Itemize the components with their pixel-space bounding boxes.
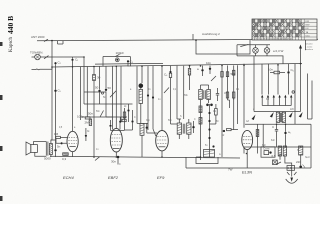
switch contact on antenna line — [44, 39, 48, 41]
resistor R5 — [89, 119, 91, 126]
svg-text:10n: 10n — [206, 61, 211, 65]
svg-text:EL3N: EL3N — [242, 170, 252, 175]
resistor R14 — [268, 68, 285, 74]
resistor R10 — [215, 104, 218, 120]
switch contact pickup — [44, 56, 49, 59]
wire v x254 heater — [253, 56, 255, 112]
wire top rail — [37, 39, 318, 41]
wire v x137 — [136, 66, 138, 123]
wire right edge drop — [310, 124, 312, 168]
wire mid links — [81, 92, 133, 131]
wire v x237 — [237, 65, 239, 124]
wire v x148 — [147, 66, 149, 123]
component below frame — [273, 160, 278, 165]
node junction dot antenna — [51, 40, 53, 42]
wire lower right rail — [252, 146, 311, 148]
label cluster top tube2 — [77, 112, 93, 119]
svg-text:100pF: 100pF — [116, 51, 125, 55]
switch arrow S3 — [289, 112, 293, 118]
svg-text:EF9: EF9 — [157, 175, 165, 180]
wire earth riser — [51, 67, 53, 69]
wire v short right top — [305, 40, 307, 50]
svg-text:2M: 2M — [85, 121, 90, 125]
wire bottom left drop — [185, 157, 187, 168]
resistor R3 — [54, 132, 67, 139]
capacitor C17 — [206, 61, 211, 74]
svg-text:50: 50 — [108, 86, 112, 90]
wire v x288 — [288, 78, 290, 95]
svg-text:0,5: 0,5 — [272, 154, 277, 158]
wire v x72 tube1 top — [72, 67, 74, 131]
capacitor C14 — [146, 123, 148, 133]
mains cord and plug — [285, 160, 298, 183]
switch arrow S1 — [252, 115, 256, 121]
wire main bus rail — [52, 64, 302, 68]
switch contact lamp — [240, 44, 248, 46]
svg-text:220: 220 — [296, 160, 301, 164]
resistor R4 — [62, 153, 68, 161]
coil right — [299, 146, 303, 166]
wire lamp left drop — [236, 45, 238, 56]
switch contact det — [164, 88, 169, 94]
svg-text:Ausführung 2: Ausführung 2 — [202, 32, 220, 36]
resistor R6 — [85, 117, 91, 125]
capacitor C21 — [284, 124, 291, 147]
capacitor C7 — [105, 66, 111, 104]
svg-text:8uF: 8uF — [271, 140, 276, 142]
wire upper bus segment — [95, 62, 163, 65]
wire v x268 — [268, 64, 270, 95]
wire transformer bottom rail — [245, 123, 311, 125]
dial pointer arrow — [299, 45, 302, 64]
title Kapsch 440 B — [6, 16, 15, 52]
resistor R16 small — [122, 119, 126, 121]
svg-text:1M: 1M — [224, 93, 227, 95]
scattered tiny labels — [59, 89, 311, 166]
svg-text:50: 50 — [95, 86, 99, 90]
capacitor C3 — [127, 60, 134, 67]
wire v x295 — [294, 64, 296, 125]
wire v x142 — [141, 66, 143, 83]
svg-text:Kapsch: Kapsch — [9, 37, 14, 52]
capacitor on x153 — [152, 96, 154, 98]
switch position table — [252, 19, 317, 41]
capacitor C11 — [109, 120, 111, 131]
wire aux rectangle — [196, 40, 250, 54]
wire v x52 feed — [51, 67, 52, 140]
switch arrow S2 — [270, 112, 274, 118]
node aux junction — [195, 39, 197, 41]
speaker LS — [26, 142, 42, 157]
svg-text:1 2 3 4 5 6 7 8 9 10 11 12 13: 1 2 3 4 5 6 7 8 9 10 11 12 13 14 15 16 1… — [252, 39, 292, 41]
switch point circle — [102, 92, 104, 94]
tube V2 — [110, 66, 122, 157]
padder cap dark circle — [139, 83, 144, 88]
wire v x177 — [177, 66, 181, 119]
svg-text:ECH4: ECH4 — [63, 175, 74, 180]
svg-text:440 B: 440 B — [6, 16, 15, 34]
pickup connector P — [30, 51, 43, 60]
svg-text:7W: 7W — [228, 168, 233, 172]
wire pickup line — [32, 56, 85, 58]
svg-text:5000: 5000 — [44, 157, 51, 161]
wire pickup drop — [83, 57, 85, 92]
wire v x183 — [183, 66, 185, 112]
svg-text:50n: 50n — [88, 112, 93, 116]
svg-text:100p: 100p — [77, 115, 84, 119]
wire v x262 — [262, 64, 263, 147]
svg-text:Ukw: Ukw — [306, 35, 311, 37]
switch arrow S4 — [299, 112, 303, 118]
tube V1 — [67, 131, 78, 157]
svg-text:ANT 2000: ANT 2000 — [31, 35, 45, 39]
wire lamp feed — [237, 44, 270, 46]
capacitor C20 — [272, 124, 278, 147]
wire v right pair — [308, 74, 313, 120]
switch contact mains — [276, 162, 281, 165]
svg-text:5n: 5n — [57, 145, 61, 149]
fuse frame box — [261, 147, 276, 159]
table footnote — [305, 43, 314, 52]
earth input squiggle — [32, 68, 53, 71]
tube V3 — [156, 66, 169, 157]
wire v x55 — [55, 67, 57, 90]
capacitor C12 — [127, 104, 129, 118]
capacitor C15 — [192, 121, 194, 133]
transformer T2 output — [42, 140, 56, 161]
tube V4 — [242, 130, 253, 168]
capacitor C1 — [54, 61, 61, 67]
capacitor C13 — [131, 110, 133, 130]
capacitor chain x209 — [208, 110, 214, 157]
capacitor C16 — [197, 66, 204, 76]
wire v x300 — [300, 64, 302, 112]
svg-text:30: 30 — [97, 76, 101, 80]
svg-text:EBF2: EBF2 — [108, 175, 119, 180]
wire lamp return — [237, 56, 283, 64]
lamp La2 — [264, 45, 270, 56]
svg-text:C₁: C₁ — [75, 58, 78, 62]
capacitor on x148 — [147, 94, 149, 96]
wire v x87 — [86, 67, 88, 117]
capacitor C2 — [71, 57, 78, 67]
coil L3 — [140, 123, 144, 157]
svg-text:gesehen: gesehen — [305, 49, 314, 51]
svg-text:TONABN.: TONABN. — [30, 51, 43, 55]
capacitor C22 bottom — [111, 156, 119, 165]
resistor R12 — [226, 65, 236, 100]
switch contact osc — [110, 91, 116, 97]
capacitor C10 — [85, 128, 87, 141]
lamp La1 — [253, 45, 259, 56]
wire grid box — [103, 57, 130, 67]
resistor R11 — [221, 66, 223, 129]
svg-text:1M: 1M — [54, 132, 59, 136]
resistor R9 — [188, 66, 190, 90]
transformer T1 — [261, 95, 292, 123]
svg-text:30n: 30n — [111, 160, 116, 164]
resistor R8 — [164, 66, 172, 124]
svg-text:Cum: Cum — [263, 147, 270, 151]
wire link coil bank — [137, 123, 153, 133]
edge mark 3 — [0, 146, 3, 151]
switch contact on grid box — [115, 51, 124, 62]
resistor R13 — [233, 65, 235, 100]
wire v x278 — [277, 64, 279, 95]
capacitor C18 — [216, 88, 219, 101]
svg-text:Schalter: Schalter — [305, 43, 313, 46]
wire extra stubs — [58, 41, 301, 160]
edge mark 4 — [0, 196, 3, 201]
wire vertical x52 — [51, 41, 53, 67]
edge mark 2 — [0, 95, 3, 100]
components mid right — [222, 128, 238, 137]
svg-text:8uF: 8uF — [262, 145, 267, 147]
svg-text:0,3: 0,3 — [62, 157, 67, 161]
capacitor dark right — [299, 165, 305, 169]
resistor R2 — [93, 67, 101, 158]
wire bottom return rail — [186, 167, 311, 169]
choke coil pair — [278, 146, 286, 160]
IF transformer T3 — [177, 119, 191, 139]
wire v x80 — [80, 67, 82, 120]
svg-text:a 0,3 W: a 0,3 W — [273, 49, 284, 53]
tone box — [196, 150, 218, 164]
wire vertical x193 to label — [192, 34, 194, 40]
capacitor C23 small — [119, 117, 121, 123]
wire bottom rail — [50, 156, 240, 158]
labeled box mains — [287, 166, 295, 171]
resistor R7 — [123, 108, 125, 130]
edge mark 1 — [0, 42, 3, 46]
wire v x121 — [120, 66, 122, 122]
switch point right — [292, 91, 294, 93]
capacitor C5 — [54, 89, 61, 141]
switch contact mid — [100, 111, 104, 118]
svg-text:v. vorne: v. vorne — [305, 45, 313, 48]
IF transformer T4 — [199, 85, 213, 160]
wire v x153 — [153, 66, 156, 136]
capacitor C19 — [287, 64, 294, 78]
wire v x112 upper — [112, 66, 114, 120]
switch contact bottom left — [95, 157, 100, 161]
switch contact if — [211, 76, 216, 81]
capacitor C8 — [56, 139, 67, 149]
coil L2 — [139, 88, 143, 123]
resistor R15 — [256, 124, 259, 147]
capacitor C6 — [95, 67, 101, 105]
wire v x244 tube4 feed — [243, 64, 245, 128]
capacitor C9 — [54, 140, 56, 157]
